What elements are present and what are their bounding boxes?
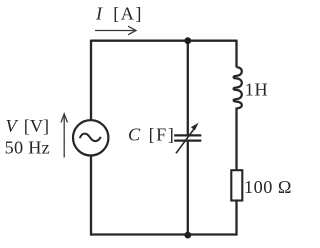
svg-text:C: C	[128, 125, 141, 145]
svg-text:50 Hz: 50 Hz	[5, 137, 50, 157]
capacitor variable arrow	[176, 127, 196, 154]
wire left lower: source to bottom-left corner	[90, 155, 92, 236]
svg-text:I: I	[95, 4, 103, 24]
svg-text:100 Ω: 100 Ω	[244, 177, 292, 197]
inductor L 1H coil	[234, 67, 242, 108]
wire bottom: from left branch to right branch	[91, 233, 237, 235]
capacitor C plates	[174, 134, 201, 136]
svg-text:[F]: [F]	[149, 125, 176, 145]
svg-text:[A]: [A]	[113, 4, 143, 24]
AC source sine wave	[80, 134, 101, 141]
wire right middle: inductor to resistor	[235, 108, 237, 171]
node top junction	[184, 37, 191, 44]
wire right lower: resistor to bottom-right corner	[235, 201, 237, 236]
arrow up (source polarity)	[61, 114, 68, 158]
resistor R 100ohm box	[231, 170, 242, 200]
node bottom junction	[184, 232, 191, 239]
wire top: from left branch to right branch	[91, 40, 237, 42]
svg-text:V: V	[6, 116, 19, 136]
wire middle lower: capacitor to bottom node	[187, 141, 189, 235]
wire right upper: top-right corner to inductor	[235, 40, 237, 68]
AC source V circle	[73, 120, 108, 155]
wire left upper: top-left corner down to source	[90, 40, 92, 121]
svg-text:H: H	[255, 80, 268, 100]
wire middle upper: top node to capacitor	[187, 41, 189, 136]
svg-text:1: 1	[245, 80, 254, 100]
svg-text:[V]: [V]	[24, 116, 49, 136]
arrow right (current I)	[95, 26, 136, 35]
